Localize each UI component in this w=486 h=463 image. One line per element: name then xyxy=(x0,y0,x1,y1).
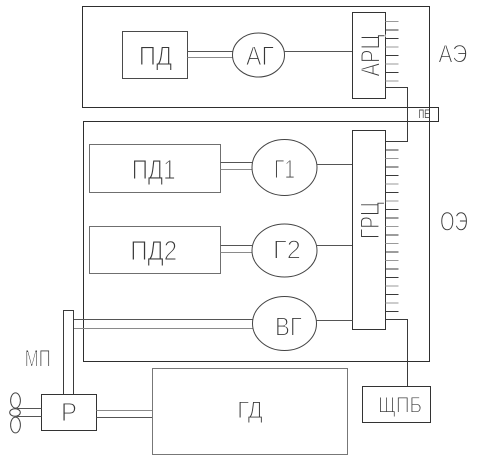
box GRC (GRShch) xyxy=(353,131,386,330)
box PD2 xyxy=(90,227,221,274)
wire VG to GRC xyxy=(317,320,353,322)
wire G2 to GRC xyxy=(317,245,353,247)
wire shaft PD2-G2 top xyxy=(221,245,253,247)
generator VG circle xyxy=(253,297,317,351)
wire shaft MP-VG top xyxy=(74,319,254,321)
box AE section outline xyxy=(83,7,430,108)
svg-text:ЩПБ: ЩПБ xyxy=(378,393,422,418)
box PD1 xyxy=(90,145,221,193)
wire shaft PD1-G1 bottom xyxy=(221,169,253,171)
box ShchPB xyxy=(363,387,431,423)
svg-text:МП: МП xyxy=(25,345,51,372)
box ARC (ARShch) xyxy=(353,13,386,99)
generator G1 circle xyxy=(252,140,317,196)
svg-text:ПЕ: ПЕ xyxy=(419,107,430,121)
svg-text:АЭ: АЭ xyxy=(438,40,467,68)
svg-text:ПД: ПД xyxy=(139,41,173,71)
svg-text:ГД: ГД xyxy=(237,397,263,424)
propeller blade top xyxy=(11,393,21,408)
wire shaft R-GD top xyxy=(97,410,153,412)
column MP shaft gear housing xyxy=(64,311,74,395)
wire propeller shaft top xyxy=(16,408,42,410)
wire G1 to GRC xyxy=(317,164,353,166)
wire shaft MP-VG bottom xyxy=(74,328,254,330)
wire AG to ARShch xyxy=(284,51,353,53)
wire ARC to PE bus xyxy=(386,88,408,142)
svg-text:Г1: Г1 xyxy=(274,154,295,184)
svg-text:ГРЦ: ГРЦ xyxy=(355,202,385,239)
busbar teeth of GRC xyxy=(386,150,399,312)
wire shaft PD1-G1 top xyxy=(221,162,253,164)
svg-text:ПД2: ПД2 xyxy=(130,235,177,266)
propeller blade bottom xyxy=(11,417,21,433)
box PD (diesel) xyxy=(123,32,188,79)
svg-text:Г2: Г2 xyxy=(273,234,301,264)
wire GRC to ShchPB bus xyxy=(386,320,408,387)
svg-text:АГ: АГ xyxy=(246,41,274,71)
box OE section outline xyxy=(84,122,430,362)
wire propeller shaft bottom xyxy=(16,416,42,418)
node PE box xyxy=(408,108,439,122)
wire shaft R-GD bottom xyxy=(97,417,153,419)
busbar teeth of ARC xyxy=(386,22,399,82)
generator AG circle xyxy=(233,33,285,77)
generator G2 circle xyxy=(252,224,317,277)
svg-text:Р: Р xyxy=(61,397,77,427)
svg-text:ПД1: ПД1 xyxy=(132,154,176,185)
box R (gearbox) xyxy=(42,395,97,431)
svg-text:АРЦ: АРЦ xyxy=(356,34,386,76)
wire shaft PD2-G2 bottom xyxy=(221,252,253,254)
wire shaft PD-AG bottom xyxy=(188,57,234,59)
propeller hub xyxy=(10,409,21,417)
wire shaft PD-AG top xyxy=(188,51,234,53)
svg-text:ОЭ: ОЭ xyxy=(440,207,468,237)
box GD (main engine) xyxy=(153,369,348,455)
svg-text:ВГ: ВГ xyxy=(275,311,302,341)
